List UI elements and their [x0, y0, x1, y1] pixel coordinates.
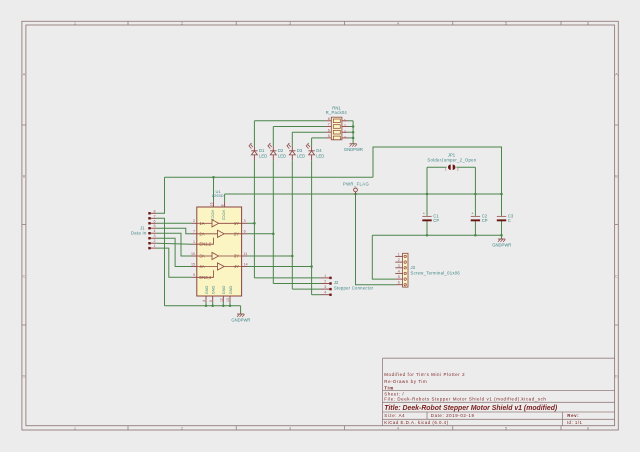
- svg-text:Size: A4: Size: A4: [384, 413, 405, 418]
- svg-text:6: 6: [244, 230, 246, 234]
- svg-text:LED: LED: [297, 153, 305, 158]
- svg-text:8: 8: [328, 117, 330, 121]
- svg-text:D: D: [615, 374, 618, 379]
- svg-text:LED: LED: [278, 153, 286, 158]
- svg-text:GND: GND: [228, 285, 233, 294]
- svg-text:J2: J2: [334, 280, 339, 285]
- svg-text:4: 4: [324, 291, 326, 295]
- svg-text:11: 11: [244, 252, 248, 256]
- svg-text:Modified for Tim's Mini Plotte: Modified for Tim's Mini Plotter 2: [384, 372, 465, 377]
- svg-text:C: C: [508, 218, 511, 223]
- svg-text:4: 4: [398, 269, 400, 273]
- svg-text:GND: GND: [204, 285, 209, 294]
- svg-text:2: 2: [344, 124, 346, 128]
- svg-text:6: 6: [154, 219, 156, 223]
- svg-text:1: 1: [324, 274, 326, 278]
- svg-text:13: 13: [226, 298, 230, 302]
- svg-text:2: 2: [398, 258, 400, 262]
- svg-text:14: 14: [244, 262, 248, 266]
- svg-text:Id: 1/1: Id: 1/1: [567, 420, 583, 425]
- svg-text:10: 10: [191, 252, 195, 256]
- svg-text:6: 6: [328, 128, 330, 132]
- svg-text:CP: CP: [482, 218, 488, 223]
- svg-text:1: 1: [398, 252, 400, 256]
- svg-text:3: 3: [324, 285, 326, 289]
- svg-text:4: 4: [202, 300, 206, 302]
- svg-text:LED: LED: [259, 153, 267, 158]
- svg-text:1: 1: [154, 244, 156, 248]
- svg-text:VCC2: VCC2: [222, 210, 227, 220]
- svg-text:GNDPWR: GNDPWR: [492, 242, 511, 247]
- svg-text:5: 5: [209, 300, 213, 302]
- svg-text:SolderJumper_2_Open: SolderJumper_2_Open: [427, 157, 476, 162]
- svg-text:C: C: [615, 274, 618, 279]
- svg-text:5: 5: [154, 224, 156, 228]
- svg-text:2: 2: [324, 280, 326, 284]
- svg-text:GND: GND: [221, 285, 226, 294]
- svg-text:Data In: Data In: [131, 230, 147, 235]
- svg-text:5: 5: [398, 275, 400, 279]
- svg-text:A: A: [615, 72, 618, 77]
- svg-text:7: 7: [328, 123, 330, 127]
- svg-text:5: 5: [328, 134, 330, 138]
- svg-text:3: 3: [398, 264, 400, 268]
- svg-text:2: 2: [193, 219, 195, 223]
- svg-text:A: A: [23, 72, 26, 77]
- svg-text:VCC1: VCC1: [211, 210, 216, 220]
- svg-text:File: Deek-Robots Stepper Moto: File: Deek-Robots Stepper Motor Shield v…: [384, 397, 546, 402]
- svg-text:C: C: [22, 274, 25, 279]
- svg-text:Sheet: /: Sheet: /: [384, 391, 404, 396]
- svg-text:Rev:: Rev:: [567, 413, 579, 418]
- svg-text:7: 7: [154, 214, 156, 218]
- svg-text:3: 3: [154, 234, 156, 238]
- svg-text:GNDPWR: GNDPWR: [344, 147, 363, 152]
- svg-text:Date: 2019-02-19: Date: 2019-02-19: [431, 413, 475, 418]
- svg-text:CP: CP: [433, 218, 439, 223]
- svg-text:LED: LED: [316, 153, 324, 158]
- svg-text:PWR_FLAG: PWR_FLAG: [343, 181, 369, 186]
- svg-text:KiCad E.D.A. kicad (6.0.4): KiCad E.D.A. kicad (6.0.4): [384, 420, 448, 425]
- svg-text:4: 4: [344, 136, 346, 140]
- svg-text:B: B: [23, 174, 26, 179]
- svg-text:16: 16: [210, 202, 214, 206]
- svg-text:Re-Drawn by Tim: Re-Drawn by Tim: [384, 379, 427, 384]
- svg-text:3: 3: [344, 130, 346, 134]
- svg-text:Title: Deek-Robot Stepper Moto: Title: Deek-Robot Stepper Motor Shield v…: [384, 405, 558, 412]
- svg-text:2: 2: [457, 168, 459, 172]
- svg-text:7: 7: [193, 230, 195, 234]
- svg-text:GND: GND: [211, 285, 216, 294]
- svg-text:3: 3: [244, 219, 246, 223]
- svg-text:8: 8: [154, 209, 156, 213]
- svg-text:B: B: [615, 174, 618, 179]
- svg-text:Screw_Terminal_01x06: Screw_Terminal_01x06: [411, 270, 461, 275]
- svg-text:Stepper Connector: Stepper Connector: [334, 286, 374, 291]
- svg-text:R_Pack04: R_Pack04: [326, 110, 348, 115]
- svg-text:4: 4: [154, 229, 156, 233]
- svg-text:9: 9: [193, 273, 195, 277]
- svg-text:L293D: L293D: [212, 193, 224, 198]
- svg-text:2: 2: [154, 239, 156, 243]
- svg-text:Tim: Tim: [384, 385, 394, 390]
- svg-text:15: 15: [191, 262, 195, 266]
- svg-text:6: 6: [398, 281, 400, 285]
- svg-text:1: 1: [193, 240, 195, 244]
- svg-text:D: D: [22, 374, 25, 379]
- svg-text:8: 8: [221, 204, 225, 206]
- svg-text:12: 12: [220, 298, 224, 302]
- svg-text:1: 1: [344, 118, 346, 122]
- svg-text:1: 1: [445, 168, 447, 172]
- svg-text:GNDPWR: GNDPWR: [231, 317, 250, 322]
